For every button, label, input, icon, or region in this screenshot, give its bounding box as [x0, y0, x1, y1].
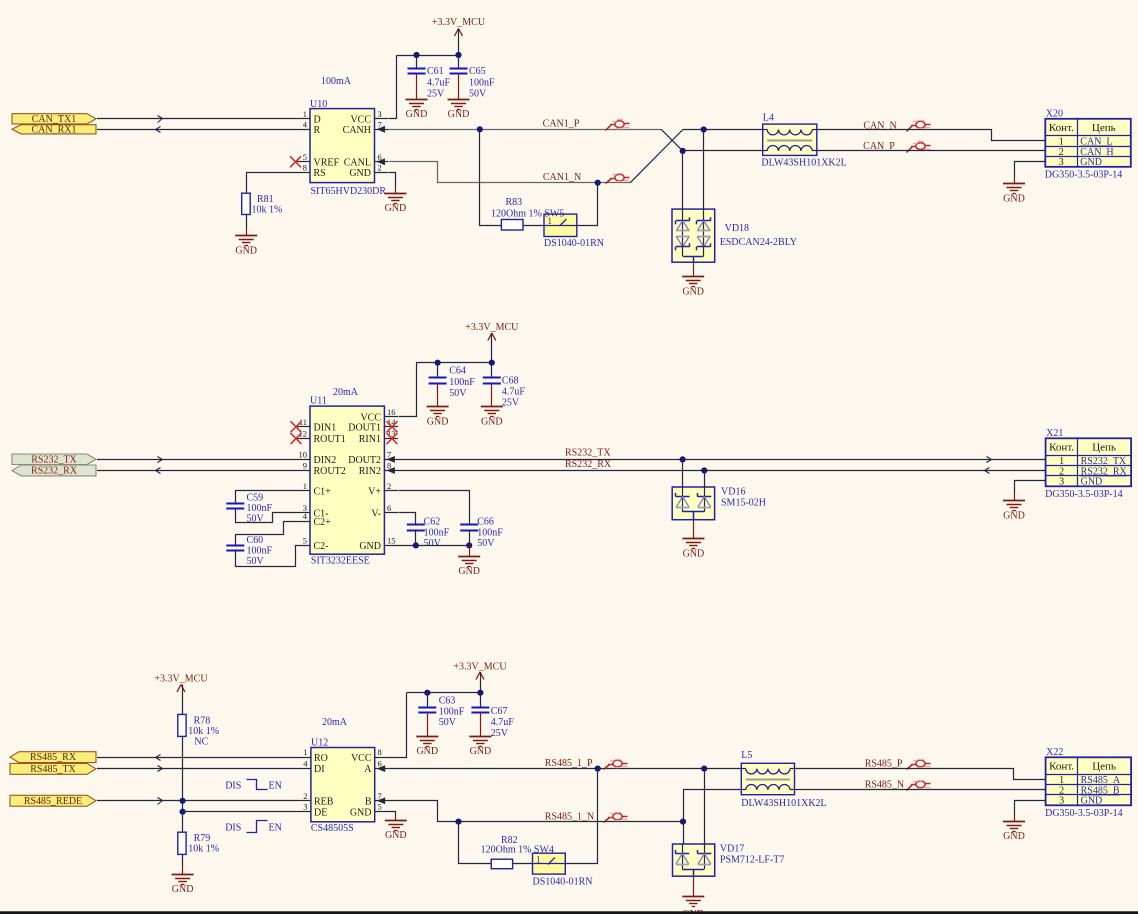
svg-text:100nF: 100nF	[469, 78, 495, 89]
junction	[180, 809, 186, 815]
wire RS232_TX to U11.DIN2	[97, 457, 297, 463]
wire U12.B down	[389, 801, 684, 822]
junction	[489, 360, 495, 366]
svg-text:100nF: 100nF	[449, 377, 475, 388]
svg-text:V-: V-	[371, 509, 381, 520]
svg-text:GND: GND	[172, 884, 194, 895]
svg-text:50V: 50V	[449, 388, 467, 399]
op-amp U12 CS48505S	[297, 738, 389, 834]
svg-text:5: 5	[303, 152, 307, 162]
diff pair marker (CAN1_P)	[606, 120, 630, 131]
junction	[466, 542, 472, 548]
svg-text:C2-: C2-	[314, 541, 329, 552]
resistor R82	[481, 835, 554, 869]
svg-text:RS485_1_N: RS485_1_N	[545, 812, 594, 823]
svg-text:DIS: DIS	[225, 823, 241, 834]
svg-text:50V: 50V	[439, 717, 457, 728]
wire U11.V- to C62	[399, 513, 416, 525]
capacitor C63	[418, 693, 464, 737]
svg-text:CAN_TX1: CAN_TX1	[32, 114, 76, 125]
svg-text:3: 3	[1059, 157, 1064, 168]
svg-text:GND: GND	[448, 109, 470, 120]
svg-text:C59: C59	[247, 493, 264, 504]
junction	[477, 126, 483, 132]
wire SW5 to CAN1_N	[577, 183, 598, 226]
svg-text:CS48505S: CS48505S	[311, 823, 354, 834]
sheet border	[0, 911, 1138, 914]
wire RS485_N to X22.2	[795, 789, 1046, 791]
wire CAN_RX1 to U10.R	[97, 127, 297, 133]
svg-text:1: 1	[303, 481, 307, 491]
svg-text:ESDCAN24-2BLY: ESDCAN24-2BLY	[720, 237, 797, 248]
wire U11.C2+ to C60	[236, 522, 297, 546]
svg-text:C68: C68	[502, 375, 519, 386]
svg-text:100nF: 100nF	[247, 546, 273, 557]
diff pair marker (CAN_N)	[907, 121, 931, 132]
svg-text:X22: X22	[1046, 747, 1063, 758]
power +3.3V_MCU (R78)	[154, 674, 208, 715]
svg-text:CAN_RX1: CAN_RX1	[31, 124, 76, 135]
svg-text:V+: V+	[368, 486, 381, 497]
net label CAN1_N	[543, 172, 581, 183]
svg-text:GND: GND	[1003, 831, 1025, 842]
junction	[701, 467, 707, 473]
svg-text:CANH: CANH	[343, 125, 371, 136]
svg-text:Конт.: Конт.	[1049, 122, 1074, 134]
svg-text:10k 1%: 10k 1%	[188, 726, 219, 737]
svg-text:C2+: C2+	[314, 517, 332, 528]
junction	[455, 819, 461, 825]
svg-text:R78: R78	[194, 716, 211, 727]
diff pair marker (CAN_P)	[907, 142, 931, 153]
power +3.3V_MCU (RS232)	[465, 322, 519, 363]
svg-text:RS232_TX: RS232_TX	[31, 454, 77, 465]
wire VD16 to GND	[693, 520, 695, 539]
wire CAN_N upper run to L4	[683, 129, 763, 131]
TVS diode VD16 SM15-02H	[672, 487, 766, 520]
capacitor C61	[408, 55, 451, 100]
svg-text:GND: GND	[481, 416, 503, 427]
svg-text:VD17: VD17	[720, 844, 744, 855]
junction	[595, 766, 601, 772]
ground (R79)	[172, 875, 194, 895]
net label RS232_TX	[565, 448, 611, 459]
wire RS232_RX to U11.ROUT2	[97, 468, 297, 474]
svg-text:ROUT2: ROUT2	[314, 466, 346, 477]
wire R79 to GND	[182, 854, 184, 874]
capacitor C65	[450, 55, 496, 100]
svg-text:20mA: 20mA	[333, 387, 359, 398]
svg-text:EN: EN	[269, 780, 282, 791]
label 100mA	[321, 76, 352, 87]
svg-text:50V: 50V	[469, 89, 487, 100]
svg-text:D: D	[314, 114, 321, 125]
wire CAN_P to X20.2	[817, 150, 1046, 152]
wire U11.GND rail	[398, 545, 469, 547]
svg-text:VREF: VREF	[314, 157, 340, 168]
svg-text:4.7uF: 4.7uF	[502, 387, 526, 398]
svg-text:GND: GND	[385, 203, 407, 214]
net label CAN_N	[863, 120, 896, 131]
svg-text:U11: U11	[310, 396, 327, 407]
ground (X22)	[1003, 822, 1025, 842]
ground (U12)	[385, 821, 407, 841]
svg-text:X21: X21	[1046, 428, 1063, 439]
wire VD17 to GND	[693, 876, 695, 896]
wire U10.GND to ground	[389, 173, 396, 194]
wire VD18 to GND	[693, 262, 695, 277]
port CAN_TX1	[12, 114, 96, 125]
svg-text:Цепь: Цепь	[1092, 761, 1116, 773]
ground (U10)	[384, 194, 406, 214]
junction	[455, 52, 461, 58]
svg-text:4.7uF: 4.7uF	[491, 717, 515, 728]
svg-text:3: 3	[303, 802, 307, 812]
svg-text:10: 10	[299, 449, 308, 459]
svg-text:VD16: VD16	[721, 487, 745, 498]
svg-text:Цепь: Цепь	[1092, 442, 1116, 454]
svg-text:GND: GND	[1003, 193, 1025, 204]
svg-text:VCC: VCC	[351, 753, 372, 764]
resistor R79	[178, 832, 219, 854]
svg-text:C66: C66	[477, 517, 494, 528]
label DIS/EN (DE)	[225, 821, 282, 834]
svg-text:16: 16	[387, 407, 396, 417]
wire VCC rail (U12)	[389, 693, 481, 758]
wire SW4 to RS485_1_P	[566, 769, 598, 864]
wire to VD16 right	[704, 471, 706, 488]
svg-text:GND: GND	[350, 807, 372, 818]
diff pair marker (RS485_1_N)	[604, 813, 628, 823]
no-connect X at U11 pin 14	[387, 421, 398, 432]
ground (X21)	[1003, 501, 1025, 522]
svg-text:+3.3V_MCU: +3.3V_MCU	[465, 322, 519, 333]
svg-text:DOUT2: DOUT2	[348, 455, 381, 466]
net label RS485_N	[865, 780, 904, 791]
ground (VD16)	[682, 539, 704, 560]
svg-text:GND: GND	[683, 549, 705, 560]
svg-text:C65: C65	[469, 66, 486, 77]
svg-text:GND: GND	[1081, 477, 1103, 488]
svg-text:50V: 50V	[477, 538, 495, 549]
connector X20 DG350-3.5-03P-14	[1045, 108, 1131, 180]
svg-text:GND: GND	[416, 746, 438, 757]
svg-text:4.7uF: 4.7uF	[427, 78, 451, 89]
wire CAN_TX1 to U10.D	[97, 116, 297, 123]
wire U10.RS to R81	[247, 173, 297, 194]
port RS485_TX	[10, 763, 96, 774]
net label RS485_1_N	[545, 812, 594, 823]
ground (C63)	[416, 737, 438, 758]
svg-text:VCC: VCC	[350, 114, 371, 125]
svg-text:C60: C60	[247, 535, 264, 546]
wire P to VD17 right	[704, 769, 706, 844]
wire N to VD17 left	[683, 822, 685, 844]
svg-text:8: 8	[303, 162, 307, 172]
junction	[424, 690, 430, 696]
svg-text:DI: DI	[314, 764, 325, 775]
wire VCC rail (CAN)	[389, 56, 459, 119]
svg-text:DLW43SH101XK2L: DLW43SH101XK2L	[761, 157, 846, 168]
svg-text:RS485_1_P: RS485_1_P	[545, 758, 593, 769]
op-amp U10 SIT65HVD230DR	[297, 99, 389, 197]
svg-text:GND: GND	[359, 541, 381, 552]
net label CAN_P	[863, 141, 895, 152]
svg-text:C67: C67	[491, 706, 508, 717]
svg-text:GND: GND	[349, 168, 371, 179]
svg-text:25V: 25V	[427, 89, 445, 100]
svg-text:C64: C64	[449, 366, 466, 377]
junction	[180, 798, 186, 804]
svg-text:L5: L5	[741, 750, 752, 761]
wire U11.V+ to C66	[399, 491, 470, 525]
svg-text:GND: GND	[235, 246, 257, 257]
ground (VD17)	[682, 897, 704, 914]
junction	[413, 542, 419, 548]
resistor R78	[178, 714, 219, 747]
svg-text:DIN2: DIN2	[314, 455, 337, 466]
connector X22 DG350-3.5-03P-14	[1045, 747, 1131, 819]
switch SW4 DS1040-01RN	[533, 853, 593, 887]
no-connect X at U11 pin 12	[291, 433, 302, 444]
power +3.3V_MCU (CAN)	[432, 17, 486, 55]
svg-text:120Ohm 1% SW5: 120Ohm 1% SW5	[491, 209, 564, 220]
svg-text:RS232_TX: RS232_TX	[565, 448, 611, 459]
svg-text:CANL: CANL	[344, 157, 371, 168]
svg-text:100nF: 100nF	[439, 706, 465, 717]
svg-text:3: 3	[1059, 477, 1064, 488]
ground (U11 C66)	[458, 557, 480, 577]
svg-text:R81: R81	[257, 194, 274, 205]
switch SW5 DS1040-01RN	[544, 214, 604, 249]
port RS232_RX	[12, 465, 96, 476]
wire C66 to GND rail	[469, 530, 471, 546]
wire crossover CAN1_N diagonal	[630, 130, 683, 183]
svg-text:C63: C63	[439, 696, 456, 707]
wire RIN2 to X21.2	[398, 468, 1046, 474]
svg-text:50V: 50V	[247, 556, 265, 567]
wire to VD16 left	[682, 459, 684, 487]
capacitor C60	[226, 535, 272, 567]
wire N up to L5	[683, 790, 741, 822]
svg-text:DG350-3.5-03P-14: DG350-3.5-03P-14	[1045, 808, 1123, 819]
svg-text:R79: R79	[194, 833, 211, 844]
no-connect X at U11 pin 11	[291, 421, 302, 432]
wire R78-R79 chain	[182, 736, 184, 832]
wire REDE to U12.DE	[183, 811, 297, 813]
svg-text:2: 2	[378, 162, 382, 172]
svg-text:SIT65HVD230DR: SIT65HVD230DR	[311, 186, 387, 197]
svg-text:8: 8	[378, 747, 382, 757]
svg-text:RS485_TX: RS485_TX	[30, 764, 76, 775]
svg-text:120Ohm 1% SW4: 120Ohm 1% SW4	[481, 845, 554, 856]
wire VCC rail (RS232)	[399, 363, 492, 417]
inductor L4 DLW43SH101XK2L	[761, 113, 846, 169]
svg-text:DIN1: DIN1	[314, 422, 337, 433]
svg-text:NC: NC	[194, 736, 208, 747]
svg-text:1: 1	[303, 747, 307, 757]
wire X20.3 to GND	[1015, 162, 1046, 184]
svg-text:+3.3V_MCU: +3.3V_MCU	[154, 674, 208, 685]
svg-text:ROUT1: ROUT1	[314, 434, 346, 445]
no-connect X at U11 pin 13	[387, 433, 398, 444]
svg-text:9: 9	[303, 461, 307, 471]
junction	[477, 690, 483, 696]
port RS232_TX	[12, 454, 96, 465]
junction	[680, 456, 686, 462]
junction	[595, 180, 601, 186]
svg-text:DOUT1: DOUT1	[348, 422, 381, 433]
diff pair marker (CAN1_N)	[606, 174, 630, 184]
ground (X20)	[1003, 184, 1025, 205]
svg-text:GND: GND	[682, 287, 704, 298]
wire CAN_P lower run to L4	[683, 150, 763, 152]
svg-text:15: 15	[387, 535, 396, 545]
wire R83 to SW5	[523, 225, 544, 227]
svg-text:R: R	[314, 125, 321, 136]
label DIS/EN (REB)	[225, 780, 282, 792]
wire R82 to SW4	[513, 863, 533, 865]
svg-text:DG350-3.5-03P-14: DG350-3.5-03P-14	[1045, 489, 1123, 500]
net label RS485_P	[865, 759, 903, 770]
port CAN_RX1	[12, 124, 96, 135]
wire CANH (grey run)	[388, 129, 661, 131]
svg-text:2: 2	[387, 481, 391, 491]
junction	[413, 52, 419, 58]
diff pair marker (RS485_N)	[907, 781, 931, 791]
TVS diode VD18 ESDCAN24-2BLY	[672, 209, 797, 262]
svg-text:R83: R83	[506, 197, 523, 208]
wire RS485_TX to U12.DI	[97, 766, 297, 772]
svg-text:GND: GND	[427, 416, 449, 427]
wire X22.3 to GND	[1015, 801, 1046, 822]
svg-text:Конт.: Конт.	[1049, 442, 1074, 454]
connector X21 DG350-3.5-03P-14	[1045, 428, 1131, 500]
svg-text:C1+: C1+	[314, 486, 332, 497]
svg-text:RS232_RX: RS232_RX	[31, 465, 78, 476]
ground (C65)	[448, 100, 470, 121]
svg-text:5: 5	[378, 802, 382, 812]
svg-text:25V: 25V	[491, 728, 509, 739]
wire RS485_P to X22.1	[795, 769, 1046, 780]
ground (R81)	[235, 236, 257, 257]
ground (VD18)	[682, 277, 704, 298]
diff pair marker (RS485_P)	[907, 760, 931, 770]
inductor L5 DLW43SH101XK2L	[741, 750, 826, 809]
op-amp U11 SIT3232EESE	[297, 396, 399, 567]
wire crossover CAN1_P diagonal	[661, 129, 683, 151]
TVS diode VD17 PSM712-LF-T7	[673, 844, 785, 877]
svg-text:2: 2	[303, 791, 307, 801]
svg-text:B: B	[365, 796, 372, 807]
net label CAN1_P	[543, 118, 580, 129]
svg-text:GND: GND	[1003, 511, 1025, 522]
junction	[680, 148, 686, 154]
svg-text:C62: C62	[424, 517, 441, 528]
wire U12.GND to ground	[389, 812, 396, 821]
svg-text:DS1040-01RN: DS1040-01RN	[544, 238, 604, 249]
svg-text:20mA: 20mA	[322, 717, 348, 728]
svg-text:RS485_REDE: RS485_REDE	[24, 796, 82, 807]
svg-text:A: A	[364, 764, 372, 775]
svg-text:+3.3V_MCU: +3.3V_MCU	[453, 662, 507, 673]
svg-text:C61: C61	[427, 66, 444, 77]
svg-text:1: 1	[303, 109, 307, 119]
svg-text:100nF: 100nF	[247, 503, 273, 514]
power +3.3V_MCU (U12)	[453, 662, 507, 693]
resistor R83	[491, 197, 564, 230]
svg-text:GND: GND	[385, 830, 407, 841]
ground (C67)	[469, 737, 491, 758]
svg-text:50V: 50V	[424, 538, 442, 549]
svg-text:100mA: 100mA	[321, 76, 352, 87]
wire CAN_P to VD18 left	[682, 151, 684, 209]
svg-text:Конт.: Конт.	[1049, 761, 1074, 773]
wire C59 to U11.C1-	[236, 508, 297, 523]
wire C60 to U11.C2-	[236, 546, 297, 567]
wire R81 to GND	[246, 215, 248, 236]
wire RS485_1_P (A) to L5	[389, 768, 742, 770]
capacitor C62	[407, 517, 450, 549]
wire CAN_N to VD18 right	[703, 130, 705, 210]
svg-text:6: 6	[387, 503, 391, 513]
label 20mA (U12)	[322, 717, 348, 728]
capacitor C68	[483, 363, 526, 409]
svg-text:EN: EN	[269, 823, 282, 834]
svg-text:10k 1%: 10k 1%	[252, 205, 283, 216]
svg-text:CAN1_P: CAN1_P	[543, 118, 580, 129]
svg-text:CAN1_N: CAN1_N	[543, 172, 581, 183]
diff pair marker (RS485_1_P)	[604, 760, 628, 770]
svg-text:RIN2: RIN2	[359, 466, 381, 477]
capacitor C66	[460, 517, 503, 549]
svg-text:+3.3V_MCU: +3.3V_MCU	[432, 17, 486, 28]
net label RS232_RX	[565, 459, 612, 470]
svg-text:RS485_RX: RS485_RX	[30, 752, 77, 763]
svg-text:25V: 25V	[502, 398, 520, 409]
svg-text:GND: GND	[1081, 796, 1103, 807]
svg-text:X20: X20	[1046, 108, 1063, 119]
ground (C64)	[427, 407, 449, 428]
svg-text:GND: GND	[406, 109, 428, 120]
svg-text:DLW43SH101XK2L: DLW43SH101XK2L	[741, 798, 826, 809]
svg-text:RS485_P: RS485_P	[865, 759, 903, 770]
wire C62 to GND rail	[415, 530, 417, 546]
port RS485_RX	[10, 752, 96, 763]
resistor R81	[242, 193, 283, 215]
junction	[701, 766, 707, 772]
wire RS485_REDE to U12.REB	[97, 798, 297, 805]
wire CAN_N to X20.1	[817, 130, 1046, 141]
wire X21.3 to GND	[1015, 481, 1046, 501]
svg-text:L4: L4	[763, 113, 774, 124]
wire DOUT2 to X21.1	[398, 457, 1046, 463]
wire U11.C1+ to C59	[236, 491, 297, 504]
svg-text:SIT3232EESE: SIT3232EESE	[311, 556, 370, 567]
svg-text:VD18: VD18	[725, 223, 749, 234]
svg-text:RIN1: RIN1	[359, 434, 381, 445]
svg-text:DIS: DIS	[225, 780, 241, 791]
wire N to R82	[459, 822, 492, 864]
svg-text:GND: GND	[470, 746, 492, 757]
svg-text:GND: GND	[1080, 157, 1102, 168]
svg-text:PSM712-LF-T7: PSM712-LF-T7	[720, 855, 784, 866]
svg-text:RS: RS	[314, 168, 326, 179]
capacitor C59	[226, 493, 272, 525]
wire CANH to R83	[480, 130, 502, 226]
junction	[435, 360, 441, 366]
capacitor C67	[471, 693, 514, 740]
